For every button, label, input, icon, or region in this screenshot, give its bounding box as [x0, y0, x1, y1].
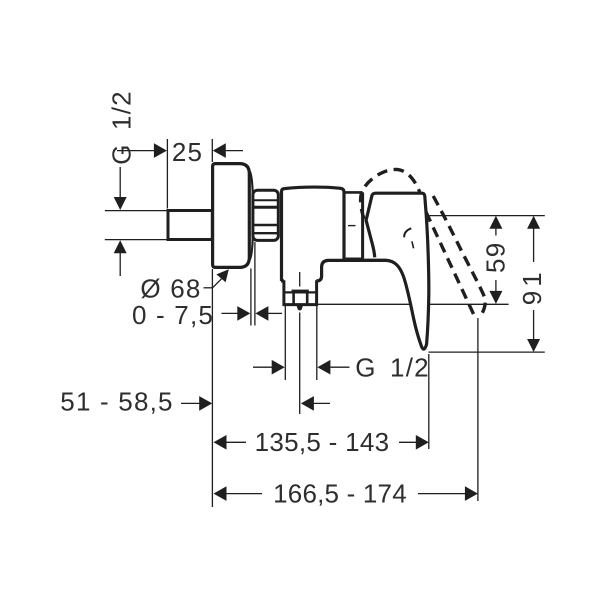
lever inner tick [412, 241, 414, 248]
extension line 25 left [166, 139, 168, 209]
dim G1/2 bottom tail right [330, 366, 349, 368]
leader 68 diagonal [213, 279, 222, 288]
svg-text:25: 25 [172, 137, 203, 167]
svg-text:59: 59 [481, 242, 511, 273]
arrow G1/2 left up [114, 240, 127, 253]
extension line outlet right [316, 306, 318, 380]
handle dashed arc [361, 169, 420, 219]
outlet nut tab [292, 290, 309, 294]
extension line top right [430, 215, 545, 217]
svg-text:135,5 - 143: 135,5 - 143 [255, 427, 390, 457]
extension line 25 right [211, 139, 213, 162]
arrow G1/2 bottom left [272, 360, 285, 375]
extension line 91 bottom [429, 351, 545, 353]
arrow 166,5-174 right [465, 486, 478, 501]
collar ring line 4 [253, 232, 278, 234]
arrow 59 bottom [489, 291, 502, 304]
extension line outlet left [284, 306, 286, 380]
outlet nozzle [284, 280, 317, 304]
arrow 135,5-143 left [214, 435, 227, 450]
arrow 135,5-143 right [416, 435, 429, 450]
dim 0-7,5 tail left [222, 312, 238, 314]
escutcheon [213, 164, 250, 268]
arrow 25 left [154, 143, 167, 158]
handle dashed edge outer [433, 196, 485, 318]
adapter ring tick [348, 225, 356, 227]
extension line handle tip [428, 354, 430, 449]
dim 91 line lower [533, 310, 535, 340]
union collar [253, 190, 278, 240]
outlet centre line lower [299, 313, 301, 415]
arrow 166,5-174 left [214, 486, 227, 501]
outlet nut facet right [306, 292, 309, 304]
dim 135,5-143 line right [399, 441, 416, 443]
adapter ring bottom [346, 258, 364, 260]
svg-text:G 1/2: G 1/2 [107, 90, 137, 165]
arrow 0-7,5 right [255, 306, 268, 321]
mixer body [282, 187, 345, 281]
wall line front [250, 269, 252, 326]
arrow 51-58,5 right [301, 396, 314, 411]
lever underside overdraw [344, 259, 387, 262]
leader 68 dash [204, 287, 213, 289]
dim G1/2 left line lower [119, 253, 121, 277]
dim 51-58,5 tail right [314, 402, 330, 404]
dim 166,5-174 line left [226, 493, 262, 495]
handle lever [344, 193, 429, 349]
arrow 91 bottom [527, 339, 540, 352]
dim 91 line upper [533, 228, 535, 262]
lever inner arc [404, 228, 411, 237]
arrow 0-7,5 left [237, 306, 250, 321]
arrow 59 top [489, 216, 502, 229]
adapter ring right edge [361, 192, 364, 258]
dim 59 line lower [495, 280, 497, 292]
dim 25 tail left [117, 150, 155, 152]
outlet nut facet left [292, 292, 295, 304]
outlet tip [296, 305, 303, 311]
svg-text:51 - 58,5: 51 - 58,5 [60, 387, 173, 417]
outlet centre line upper [299, 272, 301, 287]
supply pipe [168, 211, 212, 240]
extension line pipe top [105, 210, 167, 212]
svg-text:166,5 - 174: 166,5 - 174 [273, 479, 407, 509]
wall line back [254, 242, 256, 326]
svg-text:0 - 7,5: 0 - 7,5 [132, 300, 214, 330]
arrow 91 top [527, 216, 540, 229]
dim 59 line upper [495, 228, 497, 236]
arrow 25 right [213, 143, 226, 158]
collar ring line 3 [253, 224, 278, 226]
body bottom step [281, 260, 344, 281]
svg-text:91: 91 [517, 268, 547, 305]
dim 0-7,5 tail right [268, 312, 282, 314]
svg-text:Ø 68: Ø 68 [140, 274, 201, 304]
dim 135,5-143 line left [226, 441, 246, 443]
dim 166,5-174 line right [418, 493, 465, 495]
outlet nut top line [284, 291, 317, 293]
collar ring line 2 [253, 206, 278, 209]
arrow leader 68 [216, 269, 228, 282]
adapter ring top [344, 191, 363, 194]
arrow G1/2 bottom right [317, 360, 330, 375]
escutcheon face arc [249, 171, 253, 260]
extension line pipe bottom [105, 239, 167, 241]
arrow 51-58,5 left [199, 396, 212, 411]
extension line escutcheon face [211, 269, 213, 507]
dim G1/2 left line upper [119, 167, 121, 199]
arrow G1/2 left down [114, 197, 127, 210]
dim 51-58,5 tail left [181, 402, 200, 404]
svg-text:G 1/2: G 1/2 [355, 353, 430, 383]
dim 25 tail right [226, 150, 243, 152]
handle dashed edge inner [426, 212, 475, 317]
collar ring line 1 [253, 199, 278, 201]
extension line dashed tip [477, 318, 479, 501]
extension line 59 bottom [313, 303, 509, 305]
dim G1/2 bottom tail left [253, 366, 272, 368]
